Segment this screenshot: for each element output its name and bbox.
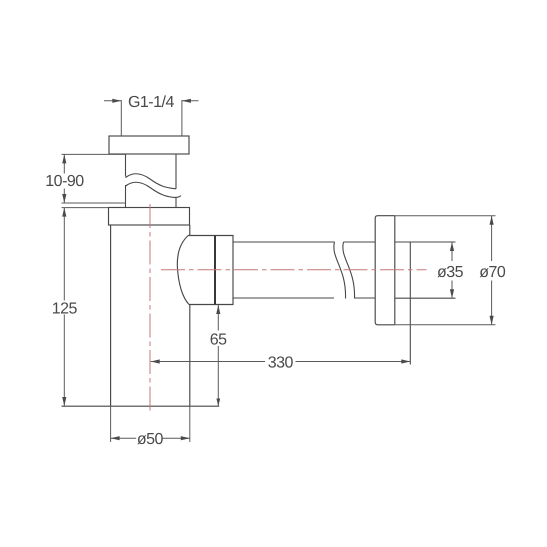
dimension ø50: [111, 406, 190, 442]
svg-text:ø70: ø70: [479, 264, 506, 281]
svg-text:G1-1/4: G1-1/4: [128, 94, 175, 111]
dimension 10-90: [62, 154, 126, 203]
horizontal pipe with break: [233, 242, 375, 299]
svg-text:ø35: ø35: [437, 264, 464, 281]
red centerline vertical: [149, 204, 151, 414]
adjustable tube with break: [126, 154, 182, 208]
dimension 65: [217, 305, 219, 406]
bottle bottom line (extended both sides): [62, 405, 220, 407]
outlet nut: [177, 236, 233, 305]
dimension G1-1/4: [104, 100, 199, 136]
svg-text:ø50: ø50: [137, 431, 164, 448]
dimension ø35: [451, 242, 453, 298]
bottle body: [111, 225, 190, 406]
red centerline horizontal: [161, 269, 427, 271]
svg-text:125: 125: [52, 300, 78, 317]
dimension ø70: [395, 216, 496, 325]
svg-text:65: 65: [210, 331, 227, 348]
svg-text:330: 330: [268, 354, 294, 371]
dimension 330: [151, 361, 411, 363]
dimension 125: [62, 208, 109, 406]
pipe stub into wall: [395, 242, 456, 365]
wall flange: [375, 216, 395, 325]
svg-text:10-90: 10-90: [45, 173, 84, 190]
inlet flange (top): [109, 136, 189, 154]
bottle top flange: [109, 208, 190, 226]
